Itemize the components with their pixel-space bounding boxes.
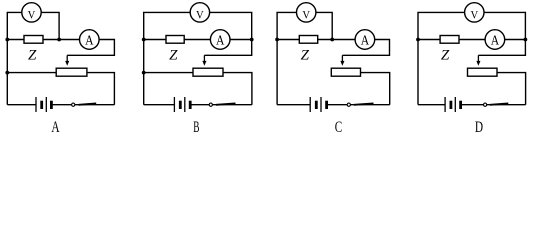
circuit option C xyxy=(275,3,390,136)
svg-text:A: A xyxy=(51,117,59,135)
wire: top rail with voltmeter xyxy=(144,12,252,39)
junction: left rail / resistor branch xyxy=(142,38,146,42)
battery (option A) xyxy=(36,97,51,112)
svg-text:V: V xyxy=(28,7,36,21)
rheostat (option D) xyxy=(468,68,498,76)
svg-text:Z: Z xyxy=(169,48,178,64)
wire: bottom rail left segment xyxy=(7,104,36,106)
wire: left rail to rheostat left terminal xyxy=(144,72,193,74)
wire: rheostat right terminal to bottom rail xyxy=(361,73,390,105)
junction: left rail / resistor branch xyxy=(416,38,420,42)
wire: rheostat right terminal to bottom rail xyxy=(87,73,115,105)
wire: resistor Z to ammeter xyxy=(43,39,80,41)
wire: right rail down to wiper feed xyxy=(478,40,525,56)
ammeter A (option D) xyxy=(485,30,505,50)
svg-text:Z: Z xyxy=(301,48,310,64)
junction: right end of resistor branch xyxy=(524,38,528,42)
wire: right rail down to wiper feed xyxy=(204,40,251,56)
voltmeter V (option C) xyxy=(297,3,316,22)
svg-text:D: D xyxy=(475,117,483,135)
wire: top rail with voltmeter xyxy=(418,12,525,39)
wire: ammeter to rheostat wiper feed xyxy=(505,39,526,41)
junction: right end of resistor branch xyxy=(57,38,61,42)
junction: left rail / rheostat branch xyxy=(142,71,146,75)
resistor Z (option B) xyxy=(166,36,184,44)
svg-text:A: A xyxy=(85,34,94,49)
resistor Z (option D) xyxy=(440,36,459,44)
switch S (option B) xyxy=(209,103,235,106)
wire: battery to switch xyxy=(190,104,209,106)
wire: bottom rail left segment xyxy=(277,104,310,106)
voltmeter V (option D) xyxy=(465,3,484,22)
wire: ammeter to rheostat wiper feed xyxy=(67,40,114,56)
ammeter A (option C) xyxy=(355,30,375,50)
wire: left rail xyxy=(6,40,8,105)
voltmeter V (option A) xyxy=(22,3,41,22)
switch S (option C) xyxy=(347,103,373,106)
svg-text:V: V xyxy=(196,7,204,21)
battery (option B) xyxy=(174,97,190,112)
svg-text:A: A xyxy=(216,34,225,49)
wire: top V loop xyxy=(7,12,59,39)
wire: left rail to rheostat left terminal xyxy=(7,72,56,74)
wire: resistor Z to ammeter xyxy=(184,39,210,41)
wire: battery to switch xyxy=(327,104,348,106)
wire: bottom rail left segment xyxy=(144,104,175,106)
svg-text:B: B xyxy=(193,117,199,135)
wire: rheostat right terminal to bottom rail xyxy=(497,73,526,105)
ammeter A (option B) xyxy=(210,30,230,50)
wire: battery to switch xyxy=(51,104,71,106)
junction: right end of resistor branch xyxy=(250,38,254,42)
junction: left rail / resistor branch xyxy=(5,38,9,42)
circuit option A xyxy=(5,3,114,136)
rheostat (option B) xyxy=(193,68,223,76)
wire: resistor Z to ammeter xyxy=(318,39,355,41)
circuit option B xyxy=(142,3,254,136)
switch S (option A) xyxy=(72,103,97,106)
circuit option D xyxy=(416,3,527,136)
wire: switch to bottom right corner xyxy=(75,104,115,106)
junction: left rail / resistor branch xyxy=(275,38,279,42)
wire: bottom rail left segment xyxy=(418,104,445,106)
rheostat wiper arrow xyxy=(65,55,69,66)
wire: switch to bottom right corner xyxy=(350,104,389,106)
wire: resistor Z to ammeter xyxy=(459,39,485,41)
rheostat wiper arrow xyxy=(340,55,344,66)
wire: rail to resistor Z xyxy=(144,39,166,41)
rheostat (option A) xyxy=(56,68,87,76)
wire: top V loop xyxy=(277,12,332,39)
svg-text:A: A xyxy=(361,34,370,49)
wire: rheostat right terminal to bottom rail xyxy=(223,73,252,105)
wire: rail to resistor Z xyxy=(418,39,440,41)
wire: ammeter to rheostat wiper feed xyxy=(230,39,252,41)
wire: left rail xyxy=(276,40,278,105)
resistor Z (option C) xyxy=(299,36,317,44)
battery (option C) xyxy=(310,97,326,112)
wire: switch to bottom right corner xyxy=(487,104,526,106)
wire: switch to bottom right corner xyxy=(212,104,252,106)
junction: right end of resistor branch xyxy=(330,38,334,42)
ammeter A (option A) xyxy=(80,30,100,50)
svg-text:A: A xyxy=(491,34,500,49)
resistor Z (option A) xyxy=(24,36,43,44)
svg-text:Z: Z xyxy=(441,48,450,64)
wire: left rail xyxy=(143,40,145,105)
wire: ammeter to rheostat wiper feed xyxy=(342,40,389,56)
svg-text:V: V xyxy=(302,7,310,21)
svg-text:Z: Z xyxy=(28,48,37,64)
wire: rail to resistor Z xyxy=(7,39,24,41)
junction: left rail / rheostat branch xyxy=(5,71,9,75)
voltmeter V (option B) xyxy=(190,3,209,22)
rheostat wiper arrow xyxy=(202,55,206,66)
svg-text:C: C xyxy=(335,117,342,135)
wire: battery to switch xyxy=(461,104,484,106)
svg-text:V: V xyxy=(470,7,478,21)
rheostat wiper arrow xyxy=(476,55,480,66)
wire: rail to resistor Z xyxy=(277,39,299,41)
wire: left rail xyxy=(417,40,419,105)
switch S (option D) xyxy=(484,103,509,106)
battery (option D) xyxy=(445,97,461,112)
rheostat (option C) xyxy=(331,68,360,76)
